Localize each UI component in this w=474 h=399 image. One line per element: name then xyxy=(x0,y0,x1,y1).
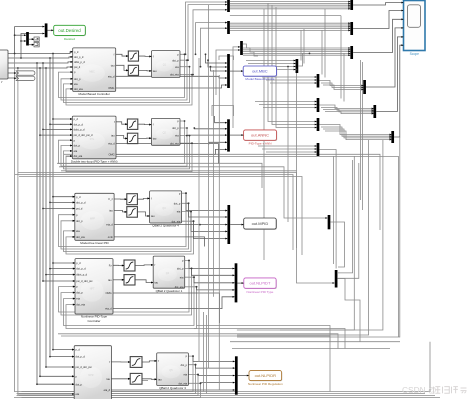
svg-text:Controller: Controller xyxy=(87,319,100,323)
wire column x53.0 xyxy=(52,54,54,350)
wire mid column 4 xyxy=(218,75,220,390)
svg-text:eta_d: eta_d xyxy=(105,307,112,311)
outport out.Desired xyxy=(54,25,86,41)
svg-text:out.NLPIDR: out.NLPIDR xyxy=(255,373,276,378)
wire into bar H 1 xyxy=(262,76,317,78)
svg-text:NPT: NPT xyxy=(90,288,95,291)
wire corner to S 3 xyxy=(338,163,359,278)
subsystem Double two-loop (PID-Type + ANN) xyxy=(71,116,118,163)
wire B4 OMG run xyxy=(113,293,220,323)
svg-text:eta: eta xyxy=(175,65,179,69)
wire feedback row1 sig4 xyxy=(66,75,192,105)
wire top bundle3 line4 xyxy=(243,52,350,54)
wire bottom bus 6 xyxy=(14,397,440,399)
wire column x37.0 xyxy=(36,63,38,384)
wire col to B5 dot_p xyxy=(37,383,74,385)
svg-text:tau: tau xyxy=(151,214,155,218)
wire top bundle1 line2 xyxy=(230,2,350,4)
subsystem Nonlinear PID Regulation controller xyxy=(74,346,111,399)
wire col to B3 p_d xyxy=(53,196,75,198)
mux bar L xyxy=(350,46,353,59)
subsystem Model-free linear PID xyxy=(75,193,114,245)
saturation thrust row5 xyxy=(130,357,142,368)
wire ANNC bar out xyxy=(230,134,243,136)
wire bundle drop 1 xyxy=(300,30,302,60)
wire ctrl5 f to sat xyxy=(111,361,129,363)
svg-text:eta: eta xyxy=(76,297,80,301)
svg-text:ddot_p_d: ddot_p_d xyxy=(74,60,85,64)
wire into bar H 2 xyxy=(266,79,317,81)
wire bar I2 out d xyxy=(325,131,391,140)
mux bar E xyxy=(240,41,243,55)
wire column x50.0 xyxy=(49,58,51,357)
wire bar H out b xyxy=(321,83,363,88)
wire feedback row3 sig1 xyxy=(59,193,187,246)
svg-text:tau: tau xyxy=(111,134,115,138)
plant QBall 2 Quadrotor 5 xyxy=(151,118,180,145)
svg-text:tau: tau xyxy=(153,136,157,140)
svg-text:dot_eta: dot_eta xyxy=(178,381,187,385)
wire top bundle2 line2 xyxy=(230,24,350,26)
wire column x40.0 xyxy=(39,68,41,376)
svg-text:dot_p_d: dot_p_d xyxy=(76,355,86,359)
wire into MPID bar 5 xyxy=(194,221,228,238)
goto tag [eta] xyxy=(16,76,35,80)
wire into ANNC bar 2 xyxy=(194,127,227,130)
svg-text:F_z: F_z xyxy=(108,197,113,201)
mux bar ANNC xyxy=(227,119,230,151)
svg-text:eta: eta xyxy=(177,210,181,214)
wire sat4b to qball tau xyxy=(135,280,153,283)
subsystem Nonlinear PID-Type Controller xyxy=(75,259,113,323)
svg-text:p_d: p_d xyxy=(74,50,79,54)
wire bar S out xyxy=(338,279,361,342)
wire top bundle2 line1 xyxy=(230,22,350,24)
wire into bar I3 2 xyxy=(262,148,317,150)
wire into bar I3 3 xyxy=(266,151,317,153)
wire sat4a to qball f xyxy=(135,264,153,267)
wire into bar I2 1 xyxy=(268,3,317,121)
wire col to B2 p_d xyxy=(53,118,72,120)
wire desired riser 2 xyxy=(21,34,44,59)
wire ctrl3 f to sat xyxy=(114,198,126,200)
svg-text:dot_p_d: dot_p_d xyxy=(76,267,86,271)
wire into NLPIDT bar 3 xyxy=(194,277,234,283)
wire into NLPIDR bar 1 xyxy=(193,356,235,361)
wire col to B4 dot_p_d xyxy=(50,268,75,270)
svg-text:QBall 2 Quadrotor 1: QBall 2 Quadrotor 1 xyxy=(156,289,183,293)
svg-text:dot_p: dot_p xyxy=(177,267,184,271)
wire bar N to scope in5 xyxy=(376,37,403,112)
wire col to B2 ddot_p_d xyxy=(43,128,72,130)
wire bar O to scope in6 xyxy=(394,45,403,137)
wire B5 tau aux run xyxy=(142,380,148,382)
wire column x46.0 xyxy=(45,68,47,367)
svg-text:dot_p: dot_p xyxy=(172,126,179,130)
wire into MBC bar 2 xyxy=(208,60,227,67)
wire top bundle3 line5 xyxy=(243,54,350,56)
wire ctrl5 tau to sat xyxy=(111,378,129,380)
wire bar H out c xyxy=(323,85,363,90)
mux bar top C xyxy=(227,0,230,12)
svg-text:eta: eta xyxy=(76,229,80,233)
svg-text:tau: tau xyxy=(109,209,113,213)
wire bar I2 out b xyxy=(321,127,391,136)
svg-text:out.Desired: out.Desired xyxy=(58,28,81,33)
svg-text:eta_d: eta_d xyxy=(104,388,111,392)
wire ctrl2 tau to sat xyxy=(116,136,127,139)
wire feedback row5 sig1 xyxy=(14,356,193,391)
svg-text:dot_p: dot_p xyxy=(172,58,179,62)
svg-text:psi_d_dot_psi: psi_d_dot_psi xyxy=(76,279,92,283)
wire corner to S 2 xyxy=(338,160,353,273)
wire feedback row3 sig4 xyxy=(66,221,194,254)
wire into bar G 2 xyxy=(248,63,296,65)
outport out.NLPIDR xyxy=(248,371,283,386)
wire top bundle1 line3 xyxy=(230,4,350,6)
saturation thrust row2 xyxy=(127,119,137,129)
wire long horizontal row2 aux3 xyxy=(61,171,334,283)
wire into ANNC bar 3 xyxy=(187,134,227,137)
wire riser row1 to top bar 4 xyxy=(196,23,228,55)
svg-text:eta: eta xyxy=(175,134,179,138)
mux bar MPID xyxy=(227,205,230,244)
wire row4 drop 1 xyxy=(203,312,205,392)
wire bar K to scope in2 xyxy=(353,11,403,29)
wire desired riser 1 xyxy=(15,27,45,54)
wire into ANNC bar 4 xyxy=(209,142,227,144)
wire feedback row2 sig3 xyxy=(64,136,190,169)
wire riser row1 to top bar 2 xyxy=(188,5,227,61)
wire drop to NLPIDT top xyxy=(263,9,265,260)
wire into MPID bar 4 xyxy=(191,212,227,232)
wire src ddot_p_d to B1 xyxy=(8,62,72,63)
wire feedback row1 sig2 xyxy=(61,60,187,100)
svg-text:ddot_p_d: ddot_p_d xyxy=(74,128,85,132)
wire into NLPIDR bar 3 xyxy=(198,375,235,376)
wire riser row1 to top bar 1 xyxy=(186,2,228,54)
wire B3 eta_d to MPID bar xyxy=(114,224,227,226)
saturation torque row1 xyxy=(128,65,138,75)
svg-text:eta: eta xyxy=(180,275,184,279)
unit delay block 2 xyxy=(34,43,39,47)
wire top bundle2 line3 xyxy=(230,26,350,28)
svg-text:dot_p: dot_p xyxy=(76,382,83,386)
wire into bar E 2 xyxy=(216,50,240,95)
mux bar pre-Desired xyxy=(26,32,29,46)
wire bar row3r out xyxy=(330,222,344,267)
wire into NLPIDT bar 4 xyxy=(197,287,235,290)
svg-text:Nonlinear PID Type: Nonlinear PID Type xyxy=(247,290,274,294)
saturation thrust row3 xyxy=(127,194,138,205)
outport out.ANNC xyxy=(244,130,278,146)
wire long vertical 4 xyxy=(360,60,362,200)
wire into bar G 4 xyxy=(252,69,296,71)
scope block Scope xyxy=(404,1,426,56)
wire bar I out b xyxy=(321,108,374,111)
wire bar G out xyxy=(298,53,309,66)
svg-text:Scope: Scope xyxy=(410,52,420,56)
wire feedback row5 sig4 xyxy=(22,383,201,397)
wire col to B2 dot_p_d xyxy=(50,123,72,125)
wire bar E out xyxy=(243,44,258,56)
svg-text:MFP: MFP xyxy=(90,218,95,221)
wire sat1b to qball tau xyxy=(139,69,152,72)
wire into bar I 2 xyxy=(259,104,317,106)
plant QBall 2 Quadrotor 1 xyxy=(153,256,185,293)
svg-text:CSDN @: CSDN @ xyxy=(402,385,437,395)
wire bar M to scope in4 xyxy=(366,28,403,87)
wire NLPIDT bar out xyxy=(237,282,243,284)
wire riser row1 to top bar 3 xyxy=(193,10,227,75)
wire top bundle1 line1 xyxy=(230,1,350,3)
wire col to B4 ddot_p_d xyxy=(46,274,75,276)
wire into NLPIDR bar 4 xyxy=(201,382,235,385)
svg-text:eta_d: eta_d xyxy=(106,223,113,227)
wire into MPID bar 2 xyxy=(189,203,228,217)
svg-text:NPR: NPR xyxy=(88,374,93,377)
svg-text:psi_d: psi_d xyxy=(76,207,83,211)
svg-text:dot_eta: dot_eta xyxy=(74,87,83,91)
wire long vertical 3 xyxy=(237,156,354,330)
wire ctrl3 tau to sat xyxy=(114,210,126,212)
svg-text:Model Based Control: Model Based Control xyxy=(245,77,274,81)
mux bar row3 right xyxy=(328,215,331,229)
svg-text:tau: tau xyxy=(111,63,115,67)
wire left tall vertical 1 xyxy=(14,54,16,392)
wire to preDesired bar 1 xyxy=(15,34,26,36)
wire src dot_p_d to B1 xyxy=(8,57,72,58)
wire long vertical 6 xyxy=(237,140,369,335)
wire feedback row1 sig1 xyxy=(59,54,185,97)
svg-text:out.ANNC: out.ANNC xyxy=(251,133,269,138)
wire B5 eta_d to NLPIDR bar xyxy=(111,389,234,391)
wire bar H out a xyxy=(319,81,363,86)
wire sat3a to qball f xyxy=(137,197,149,200)
svg-text:eta_d: eta_d xyxy=(108,142,115,146)
wire left tall vertical 2 xyxy=(17,68,19,396)
svg-text:tau: tau xyxy=(106,377,110,381)
wire top bundle2 line5 xyxy=(230,29,350,31)
svg-text:dot_eta: dot_eta xyxy=(74,154,83,158)
mux bar J xyxy=(350,0,353,10)
wire src to goto eta xyxy=(8,77,18,79)
plant QBall 2 Quadrotor 3 xyxy=(157,353,189,390)
wire bottom bus 4 xyxy=(19,393,425,395)
svg-text:dot_eta: dot_eta xyxy=(76,235,85,239)
wire top bundle1 line5 xyxy=(230,8,350,10)
mux bar K xyxy=(350,22,353,35)
wire feedback row5 sig2 xyxy=(17,365,196,394)
wire bottom bus 3 xyxy=(22,342,431,392)
wire col to B4 p_d xyxy=(53,262,75,264)
svg-text:OMG: OMG xyxy=(105,291,111,295)
wire B1 eta_d to MBC bar xyxy=(116,76,227,78)
wire into ANNC bar 1 xyxy=(215,116,227,123)
wire NLPIDR bar out xyxy=(238,375,249,377)
mux bar N xyxy=(373,105,376,118)
wire corner above MBC xyxy=(219,56,234,60)
wire long horizontal eta row2 xyxy=(64,154,380,230)
mux bar Desired xyxy=(45,23,48,37)
unit delay block 1 xyxy=(34,37,39,41)
plant QBall 2 Quadrotor 4 xyxy=(150,191,182,228)
wire preDesired to delay2 xyxy=(29,44,34,46)
wire row4 drop 2 xyxy=(206,315,208,394)
wire feedback row1 sig3 xyxy=(64,67,190,103)
wire top bundle1 line4 xyxy=(230,6,350,8)
wire bar I3 out xyxy=(319,150,336,269)
wire row4 wide line 2 xyxy=(61,336,330,392)
svg-text:OMG: OMG xyxy=(108,153,114,157)
svg-text:out.MPID: out.MPID xyxy=(252,221,269,226)
wire bar I out d xyxy=(325,112,374,114)
wire preDesired to delay1 xyxy=(29,38,34,40)
wire sat2b to qball tau xyxy=(138,137,151,139)
wire feedback row4 sig3 xyxy=(64,277,195,325)
mux bar NLPIDR xyxy=(235,356,238,394)
wire bar I2 out a xyxy=(319,125,391,135)
svg-text:dot_p: dot_p xyxy=(181,363,188,367)
saturation torque row4 xyxy=(124,275,135,285)
svg-text:MBC: MBC xyxy=(89,70,95,73)
svg-text:out.MBC: out.MBC xyxy=(252,69,268,74)
wire row4 loop ext 2 xyxy=(194,329,345,349)
svg-text:dot_p_d: dot_p_d xyxy=(74,122,84,126)
wire long vertical 7 xyxy=(280,140,383,330)
wire src to goto p xyxy=(8,72,18,74)
wire long horizontal row2 aux2 xyxy=(59,167,327,218)
svg-text:Model-free linear PID: Model-free linear PID xyxy=(80,241,109,245)
wire src psi_d to B1 xyxy=(8,67,72,68)
goto tag [p] xyxy=(16,71,35,75)
wire sat5b to qball tau xyxy=(142,378,156,381)
wire col to B4 psi_d xyxy=(43,280,75,282)
wire bar J to scope in1 xyxy=(353,3,403,5)
saturation thrust row1 xyxy=(128,51,138,61)
wire top bundle2 line4 xyxy=(230,28,350,30)
wire bar L to scope in3 xyxy=(353,19,403,52)
wire ctrl1 f to sat xyxy=(116,54,128,56)
wire feedback row2 sig2 xyxy=(61,128,187,166)
wire into bar I 1 xyxy=(255,101,317,103)
wire long vertical 1 xyxy=(333,156,335,264)
svg-text:QBall 2 Quadrotor 4: QBall 2 Quadrotor 4 xyxy=(152,224,179,228)
wire bundle drop 3 xyxy=(321,30,323,74)
wire into bar E 1 xyxy=(233,47,240,128)
svg-text:Model Based Controller: Model Based Controller xyxy=(79,92,110,96)
svg-text:Nonlinear PID Regulation: Nonlinear PID Regulation xyxy=(248,382,283,386)
wire into NLPIDR bar 2 xyxy=(196,365,235,368)
svg-text:Double two-loop (PID-Type + AN: Double two-loop (PID-Type + ANN) xyxy=(71,159,118,163)
svg-text:dot_p: dot_p xyxy=(76,219,83,223)
wire into MBC bar 1 xyxy=(206,54,227,63)
wire long horizontal row2 aux1 xyxy=(57,163,262,188)
wire feedback row4 sig2 xyxy=(61,268,192,315)
wire col to B5 psi_d xyxy=(46,366,74,368)
wire into NLPIDT bar 1 xyxy=(189,261,234,269)
wire bundle drop 2 xyxy=(303,29,305,64)
wire bottom bus 2 xyxy=(232,348,390,350)
svg-text:p_d: p_d xyxy=(76,348,81,352)
wire col to B5 dot_p_d xyxy=(50,356,74,358)
wire into bar I3 1 xyxy=(258,145,317,147)
svg-text:dot_p_d: dot_p_d xyxy=(74,55,84,59)
wire bar C out mid xyxy=(230,15,341,17)
wire top bundle3 line1 xyxy=(243,47,350,49)
wire ctrl4 tau to sat xyxy=(113,279,124,281)
wire tap down x296 xyxy=(296,70,298,171)
svg-text:dot_p: dot_p xyxy=(76,291,83,295)
source block Trajectory generator xyxy=(0,50,8,84)
wire B1 OMG to MBC bar xyxy=(116,85,227,88)
subsystem Model Based Controller xyxy=(73,48,116,96)
svg-text:OMG: OMG xyxy=(108,86,114,90)
wire B4 eta_d to NLPIDT bar xyxy=(113,297,234,309)
wire feedback row4 sig1 xyxy=(59,261,190,313)
wire feedback row3 sig3 xyxy=(64,212,192,252)
wire ctrl4 f to sat xyxy=(113,264,124,266)
svg-text:out.NLPIDT: out.NLPIDT xyxy=(249,281,270,286)
wire feedback row5 sig3 xyxy=(19,375,198,396)
wire into MPID bar 1 xyxy=(186,193,227,210)
outport out.MPID xyxy=(244,218,277,230)
wire bar I2 out c xyxy=(323,129,391,138)
wire ctrl2 f to sat xyxy=(116,122,127,124)
wire into bar G 1 xyxy=(246,60,296,62)
svg-text:ddot_p_d: ddot_p_d xyxy=(76,273,87,277)
wire MBC bar out xyxy=(230,70,243,72)
svg-text:eta: eta xyxy=(76,392,80,396)
svg-text:QBall 2 Quadrotor 3: QBall 2 Quadrotor 3 xyxy=(159,386,186,390)
wire col to B2 psi_d xyxy=(40,134,72,136)
plant QBall 2 Quadrotor 2 xyxy=(152,51,181,78)
wire bottom bus 5 xyxy=(17,395,436,397)
mux bar I3 xyxy=(317,143,320,156)
svg-text:tau: tau xyxy=(155,281,159,285)
svg-text:dot_p: dot_p xyxy=(174,201,181,205)
wire long horizontal dot_eta row2 xyxy=(66,157,399,338)
svg-text:eta: eta xyxy=(183,373,187,377)
svg-text:eta: eta xyxy=(74,149,78,153)
wire MPID bar out xyxy=(230,224,243,226)
saturation torque row3 xyxy=(127,207,138,218)
wire ctrl1 tau to sat xyxy=(116,65,128,70)
svg-text:PID-Type + ANN: PID-Type + ANN xyxy=(249,142,272,146)
svg-text:p_d: p_d xyxy=(76,195,81,199)
watermark CSDN @haishenzhiguang xyxy=(402,385,467,395)
wire row2 lower loop 2 xyxy=(15,175,293,251)
wire top bundle3 line2 xyxy=(243,49,350,51)
svg-text:tau: tau xyxy=(158,377,162,381)
mux bar I xyxy=(317,98,320,112)
svg-text:dot_eta: dot_eta xyxy=(170,73,179,77)
mux bar MBC xyxy=(227,54,230,88)
wire into NLPIDT bar 2 xyxy=(192,268,235,275)
wire bundle drop 4 xyxy=(324,9,326,78)
wire bar I out a xyxy=(319,105,373,109)
mux bar NLPIDT xyxy=(235,263,238,302)
svg-text:tau: tau xyxy=(108,278,112,282)
svg-text:DTL: DTL xyxy=(90,138,95,141)
wire long vertical 8 xyxy=(237,137,400,337)
wire mid column 3 xyxy=(213,70,215,297)
wire B2 eta_d run xyxy=(116,144,219,164)
mux bar H xyxy=(317,74,320,88)
wire bottom bus 1 xyxy=(230,341,400,343)
wire mid column 2 xyxy=(208,5,210,368)
svg-text:dot_eta: dot_eta xyxy=(76,303,85,307)
